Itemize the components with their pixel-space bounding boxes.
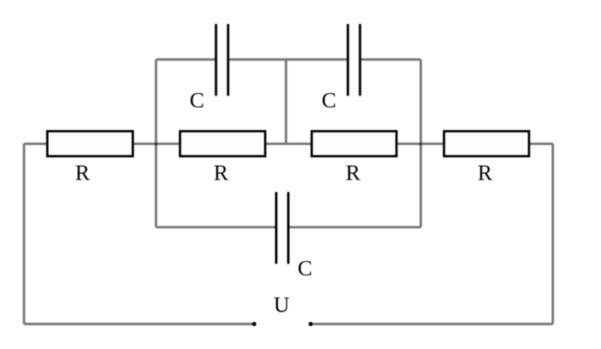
svg-text:R: R <box>346 160 361 185</box>
svg-text:C: C <box>322 88 337 113</box>
wire: top edge between C1 and C2 <box>229 58 348 60</box>
capacitor C1 <box>190 24 228 113</box>
resistor R2 <box>180 131 265 185</box>
wire: main horizontal bus y=144 <box>24 143 553 145</box>
resistor R1 <box>47 131 133 185</box>
wire: bottom box edge right of C3 <box>290 226 421 228</box>
wire: top box left vertical x=156 <box>155 60 157 228</box>
source U terminal dot left <box>252 322 256 326</box>
wire: bottom right segment from U terminal <box>311 323 553 325</box>
wire: top edge left of C1 <box>156 58 217 60</box>
resistor R3 <box>312 131 397 185</box>
capacitor C2 <box>322 24 360 113</box>
node: junction x421/main <box>420 143 423 146</box>
capacitor C3 <box>276 192 312 281</box>
svg-text:C: C <box>190 88 205 113</box>
wire: top box right vertical x=421 <box>420 60 422 228</box>
svg-text:U: U <box>274 292 290 317</box>
node: junction x156/main <box>155 143 158 146</box>
svg-text:R: R <box>75 160 90 185</box>
source U terminal dot right <box>309 322 313 326</box>
wire: right outer vertical x=553 <box>552 144 554 324</box>
wire: top edge right of C2 <box>361 58 421 60</box>
wire: bottom box edge left of C3 <box>156 226 275 228</box>
resistor R4 <box>444 131 529 185</box>
wire: bottom left segment to U terminal <box>24 323 254 325</box>
svg-text:C: C <box>298 256 313 281</box>
wire: middle divider vertical x=286 <box>285 60 287 144</box>
wire: left outer vertical x=24 <box>23 144 25 324</box>
svg-text:R: R <box>478 160 493 185</box>
svg-text:R: R <box>214 160 229 185</box>
